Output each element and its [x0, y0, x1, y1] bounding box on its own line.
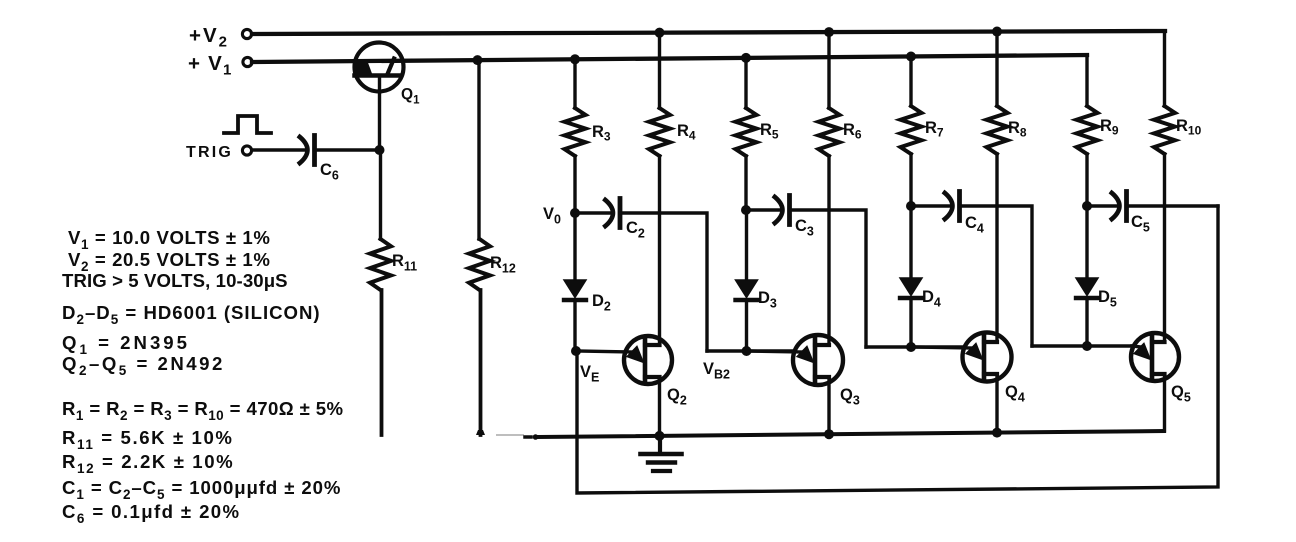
wire D2 to VE — [573, 300, 576, 351]
label Q3 — [840, 386, 860, 408]
note C6 spec — [62, 501, 240, 526]
label VB2 — [703, 360, 730, 382]
wire ground rail faint stub — [496, 434, 538, 440]
label R5 — [760, 121, 779, 142]
note TRIG spec — [62, 270, 288, 291]
node D4/emitter junction — [906, 342, 916, 352]
wire TRIG to C6 — [252, 148, 305, 151]
wire V0 to C2 — [575, 211, 611, 214]
label R8 — [1008, 119, 1027, 140]
wire +V2 rail — [252, 31, 1165, 34]
wire V0 to D2 — [573, 213, 576, 280]
label C6 — [320, 161, 339, 183]
label Q4 — [1005, 383, 1025, 405]
transistor Q3 (UJT) — [747, 335, 843, 385]
wire base junction to R11 — [379, 150, 382, 239]
label R3 — [592, 123, 611, 144]
wire R9 node to C5 — [1087, 204, 1119, 207]
label Q1 — [401, 86, 420, 107]
note R11 spec — [62, 427, 234, 452]
wire Q1 base lead — [378, 76, 381, 151]
wire node to D4 — [909, 206, 912, 278]
wire D3 to emitter wire — [745, 300, 748, 351]
transistor Q1 — [355, 43, 404, 92]
note V1 spec — [68, 227, 271, 252]
wire Q5 B1 to ground rail corner — [1163, 374, 1166, 431]
node R9/C5/D5 — [1082, 201, 1092, 211]
note C1-C5 spec — [62, 477, 341, 502]
note D2-D5 spec — [62, 302, 321, 327]
node Q2 B1 junction — [655, 431, 665, 441]
label C2 — [626, 219, 645, 241]
capacitor C4 — [943, 192, 960, 221]
label C3 — [795, 217, 814, 239]
label R9 — [1100, 117, 1119, 138]
wire R6 top — [827, 32, 830, 108]
wire D5 to emitter wire — [1085, 298, 1088, 346]
note Q1 spec — [62, 332, 190, 357]
wire R9 to node — [1085, 154, 1088, 206]
wire ground rail — [538, 431, 1164, 437]
node R5/C3/D3 — [741, 205, 751, 215]
note R12 spec — [62, 451, 234, 476]
resistor R11 — [370, 239, 391, 290]
wire node to D3 — [745, 210, 748, 280]
wire R10 to Q5 B2 — [1163, 154, 1166, 342]
label R11 — [392, 252, 417, 274]
resistor R5 — [736, 108, 757, 156]
node R7/C4/D4 — [906, 201, 916, 211]
wire C6 to Q1 base — [315, 148, 380, 151]
resistor R3 — [565, 108, 586, 156]
diode D4 — [900, 278, 922, 298]
wire R11 to bottom — [380, 290, 384, 435]
label R10 — [1176, 117, 1202, 138]
wire R5 top — [744, 58, 747, 108]
capacitor C3 — [773, 196, 790, 225]
node R7 top — [906, 51, 916, 61]
resistor R12 — [469, 239, 490, 290]
svg-text:TRIG > 5 VOLTS, 10-30μS: TRIG > 5 VOLTS, 10-30μS — [62, 270, 288, 291]
wire emitter Q3 — [707, 349, 793, 352]
wire R8 to Q4 B2 — [995, 154, 998, 342]
node R3 top — [570, 54, 580, 64]
capacitor C2 — [604, 199, 621, 228]
wire R5 node to C3 — [746, 208, 782, 211]
wire R3 top — [573, 59, 576, 108]
wire Q2 B1 to ground — [658, 377, 661, 436]
label D2 — [592, 292, 611, 314]
capacitor C5 — [1110, 192, 1127, 221]
wire R12 to ground rail — [476, 290, 485, 435]
label VE — [580, 363, 599, 385]
label R4 — [677, 122, 696, 143]
resistor R4 — [649, 108, 670, 156]
resistor R7 — [901, 106, 922, 154]
label R12 — [490, 254, 516, 276]
label D4 — [922, 288, 941, 310]
label D5 — [1098, 288, 1117, 310]
terminal TRIG — [242, 146, 251, 155]
transistor Q2 (UJT) — [576, 336, 672, 384]
wire R4 top — [658, 33, 661, 108]
wire R3 to V0 — [573, 156, 576, 213]
node V0 — [570, 208, 580, 218]
wire emitter Q5 — [1032, 344, 1131, 347]
node R8 top — [992, 27, 1002, 37]
wire R4 to Q2 B2 — [658, 156, 661, 345]
label TRIG — [186, 144, 233, 161]
wire emitter Q4 — [866, 345, 963, 348]
wire Q3 B1 to ground — [827, 377, 830, 434]
terminal +V1 — [243, 57, 252, 66]
wire R9 top (rail corner) — [1085, 55, 1088, 106]
node D5/emitter junction — [1082, 341, 1092, 351]
wire R6 to Q3 B2 — [827, 156, 830, 345]
label Q5 — [1171, 383, 1191, 405]
wire D4 to emitter wire — [909, 298, 912, 347]
wire R8 top — [995, 32, 998, 106]
svg-text:TRIG: TRIG — [186, 144, 233, 161]
label R7 — [925, 119, 944, 140]
diode D3 — [736, 280, 758, 300]
wire R7 to node — [909, 154, 912, 206]
label R6 — [843, 121, 862, 142]
node Q3 B1 junction — [824, 429, 834, 439]
node R6 top — [824, 27, 834, 37]
transistor Q4 (UJT) — [912, 333, 1012, 382]
node R5 top — [741, 53, 751, 63]
label C4 — [965, 214, 984, 236]
resistor R10 — [1154, 106, 1175, 154]
node D3/emitter junction — [742, 346, 752, 356]
note V2 spec — [68, 249, 271, 274]
wire node to D5 — [1085, 206, 1088, 278]
label C5 — [1131, 213, 1150, 235]
ground symbol — [641, 436, 682, 471]
diode D2 — [564, 280, 586, 300]
wire R7 node to C4 — [911, 204, 952, 207]
label +V2 — [189, 24, 229, 51]
label +V1 — [188, 52, 233, 79]
label D3 — [758, 289, 777, 311]
resistor R6 — [819, 108, 840, 156]
wire feedback bottom — [577, 206, 1218, 493]
wire C5 output — [1127, 204, 1219, 207]
wire R7 top — [909, 56, 912, 106]
wire R5 to node — [744, 156, 747, 210]
wire R12 top — [477, 60, 480, 239]
capacitor C6 — [298, 136, 315, 165]
node Q4 B1 junction — [992, 428, 1002, 438]
transistor Q5 (UJT) — [1131, 333, 1179, 381]
wire Q4 B1 to ground — [995, 374, 998, 433]
label Q2 — [667, 386, 687, 408]
node R12 top — [473, 55, 483, 65]
node VE — [571, 346, 581, 356]
wire +V1 rail — [252, 55, 1087, 62]
note R1-R10 spec — [62, 398, 343, 423]
resistor R8 — [987, 106, 1008, 154]
wire C2 output — [620, 213, 707, 351]
terminal +V2 — [242, 29, 251, 38]
trigger pulse symbol — [224, 116, 271, 133]
wire C4 output — [960, 206, 1033, 346]
diode D5 — [1076, 278, 1098, 298]
wire C3 output — [790, 210, 867, 347]
note Q2-Q5 spec — [62, 353, 225, 378]
label V0 — [543, 205, 561, 227]
wire R10 top (rail corner) — [1163, 31, 1166, 106]
node R4 top — [655, 28, 665, 38]
node C6/base junction — [375, 145, 385, 155]
resistor R9 — [1077, 106, 1098, 154]
